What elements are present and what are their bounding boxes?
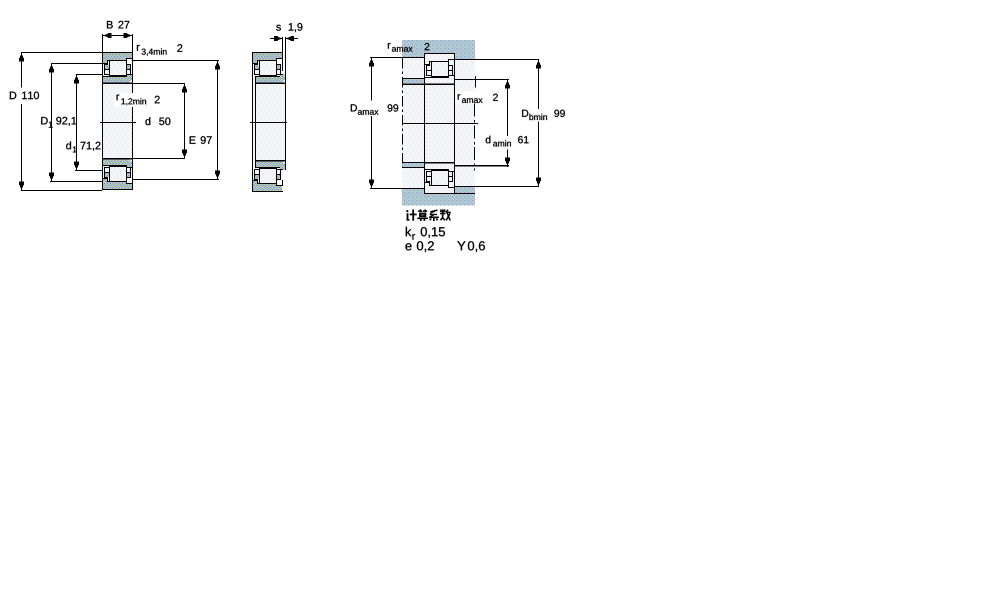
bearing bottom section [424,162,455,194]
dim Da [370,57,424,58]
centerline tick [250,122,287,123]
s ext line 2 (inner right face) [285,37,286,161]
background hatch [402,40,475,205]
dim s [270,38,282,39]
dim d1 [77,74,102,75]
factors text [406,227,412,236]
label ra mid (white backing) [456,91,500,104]
background hatch [103,53,132,190]
dim d [133,83,185,84]
abutment dash-dot line [474,104,476,171]
s ext line 1 (outer right face) [282,37,283,71]
bearing top section [424,53,455,85]
shaft shoulder strip bottom [402,162,424,163]
shaft shoulder strip top [402,78,424,79]
outer ring left face [252,52,253,192]
label r1,2min (white backing) [115,93,137,107]
dim D: extension+dim lines [22,52,102,53]
bearing faces [424,53,425,194]
bottom radial section [252,160,286,192]
housing bore edge dash-dot left [402,58,404,168]
label ra top [388,43,391,49]
dim Db [454,59,539,60]
算 [417,209,428,221]
dim D1 [51,63,102,64]
计算系数 heading (hand-drawn CJK) [406,209,451,221]
dim B: dimension line [103,35,132,36]
计 [406,210,416,221]
housing band top [402,40,424,58]
dim D: label [19,88,41,105]
bearing bottom face ext right [454,193,475,194]
数 [440,209,451,220]
VIEW 1 : bearing front cross-section [10,21,220,191]
abutment fillet tick [475,76,476,88]
centerline tick [402,123,478,124]
top radial section [102,52,133,84]
inner ring left face / bore edge [255,84,256,161]
dim B: label [107,21,113,28]
top radial section [252,52,286,84]
right face line [132,34,133,190]
background hatch [253,53,283,192]
VIEW 2 : side section with s dimension [250,23,302,192]
VIEW 3 : abutment / mounting drawing [351,40,565,252]
dim da [454,79,509,80]
housing band bottom [402,189,424,206]
系 [429,209,439,221]
left face line [102,34,103,190]
bottom notch edge [282,180,283,186]
centerline tick [100,122,136,123]
bottom radial section [102,158,133,190]
label r3,4min [137,45,140,51]
dim E [133,60,219,61]
